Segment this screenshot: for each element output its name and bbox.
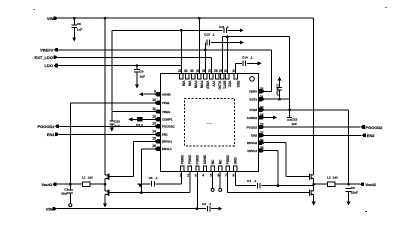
svg-text:20: 20	[260, 105, 264, 109]
svg-text:C2: C2	[202, 202, 206, 206]
svg-text:23: 23	[260, 123, 264, 127]
svg-text:30: 30	[190, 69, 194, 73]
svg-text:C5: C5	[351, 186, 355, 190]
svg-text:AGND2: AGND2	[247, 116, 258, 120]
svg-text:26: 26	[260, 138, 264, 142]
svg-text:C14: C14	[242, 56, 248, 60]
svg-text:11: 11	[152, 107, 156, 111]
svg-text:1uH: 1uH	[333, 176, 338, 180]
svg-text:VIN: VIN	[182, 81, 186, 87]
svg-text:GND: GND	[234, 157, 238, 165]
svg-text:1uF: 1uF	[140, 75, 146, 79]
svg-text:.1: .1	[254, 179, 257, 183]
svg-text:NC: NC	[218, 159, 222, 164]
svg-text:.1: .1	[226, 25, 229, 29]
svg-text:PGND: PGND	[181, 154, 185, 164]
svg-text:COMP1: COMP1	[162, 118, 173, 122]
svg-text:8: 8	[233, 173, 235, 177]
svg-text:PGOOD1: PGOOD1	[162, 125, 175, 129]
svg-text:NC: NC	[211, 159, 215, 164]
svg-text:PGND: PGND	[196, 154, 200, 164]
svg-text:VDRV: VDRV	[249, 90, 257, 94]
svg-text:EN1: EN1	[47, 132, 56, 137]
svg-text:EN2: EN2	[251, 134, 257, 138]
svg-text:26: 26	[214, 69, 218, 73]
svg-text:VIN: VIN	[47, 16, 54, 21]
svg-text:.1: .1	[209, 202, 212, 206]
svg-text:VCC: VCC	[228, 81, 232, 88]
svg-text:C4: C4	[247, 179, 251, 183]
svg-text:14: 14	[152, 130, 156, 134]
svg-text:PGOD2: PGOD2	[247, 125, 258, 129]
svg-text:BST2: BST2	[249, 98, 257, 102]
svg-text:LDO: LDO	[45, 63, 53, 68]
svg-text:C8: C8	[77, 22, 81, 26]
svg-text:1nF: 1nF	[292, 122, 298, 126]
svg-text:10: 10	[152, 98, 156, 102]
svg-text:DRVL2: DRVL2	[247, 149, 257, 153]
svg-text:AGND: AGND	[162, 93, 172, 97]
svg-text:2: 2	[187, 173, 189, 177]
svg-text:VIN: VIN	[46, 206, 53, 211]
svg-text:DRVH2: DRVH2	[247, 141, 257, 145]
svg-text:EN1: EN1	[162, 133, 168, 137]
svg-text:PVIN: PVIN	[200, 81, 204, 89]
svg-text:7: 7	[225, 173, 227, 177]
svg-text:15: 15	[152, 137, 156, 141]
svg-text:Vout2: Vout2	[365, 182, 377, 187]
svg-text:VLDO: VLDO	[218, 81, 222, 90]
svg-text:.1: .1	[155, 176, 158, 180]
svg-text:BST1: BST1	[223, 81, 227, 89]
svg-text:16: 16	[152, 144, 156, 148]
svg-text:EN2: EN2	[367, 133, 376, 138]
svg-text:PGOOD1: PGOOD1	[37, 124, 55, 129]
svg-text:.1: .1	[250, 56, 253, 60]
svg-text:Vout1: Vout1	[41, 182, 53, 187]
svg-text:L2: L2	[327, 176, 331, 180]
svg-text:C9: C9	[140, 70, 144, 74]
svg-text:3: 3	[195, 173, 197, 177]
svg-text:........: ........	[207, 121, 213, 124]
svg-text:22uF: 22uF	[351, 190, 358, 194]
svg-text:V7V: V7V	[212, 81, 216, 88]
svg-text:PGND: PGND	[188, 154, 192, 164]
svg-text:VFB1: VFB1	[162, 101, 170, 105]
svg-text:24: 24	[260, 113, 264, 117]
svg-text:REG: REG	[236, 81, 240, 88]
svg-text:9: 9	[154, 90, 156, 94]
svg-text:VIN: VIN	[188, 81, 192, 87]
svg-text:.1: .1	[212, 33, 215, 37]
svg-text:1uF: 1uF	[77, 28, 83, 32]
svg-text:31: 31	[184, 69, 188, 73]
svg-text:22: 22	[260, 87, 264, 91]
svg-text:PGND: PGND	[226, 154, 230, 164]
svg-text:PVIN: PVIN	[194, 81, 198, 89]
svg-text:VREG: VREG	[162, 110, 171, 114]
svg-text:27: 27	[260, 131, 264, 135]
svg-text:PGOOD2: PGOOD2	[365, 125, 383, 130]
svg-text:VREF3: VREF3	[40, 47, 54, 52]
svg-text:C11: C11	[219, 25, 225, 29]
svg-text:VFB2: VFB2	[249, 108, 257, 112]
svg-text:C16 1uF: C16 1uF	[276, 84, 280, 96]
svg-text:DRVL1: DRVL1	[162, 147, 172, 151]
svg-text:25: 25	[260, 146, 264, 150]
svg-text:L1: L1	[82, 176, 86, 180]
svg-text:DRVH1: DRVH1	[162, 140, 172, 144]
svg-text:C13: C13	[204, 33, 210, 37]
svg-text:13: 13	[152, 122, 156, 126]
svg-text:5: 5	[210, 173, 212, 177]
svg-text:EXT_LDO: EXT_LDO	[35, 55, 53, 60]
svg-text:6: 6	[218, 173, 220, 177]
svg-text:1uH: 1uH	[88, 176, 93, 180]
svg-text:C3: C3	[149, 176, 153, 180]
svg-text:AGND: AGND	[203, 154, 207, 164]
svg-text:4: 4	[202, 173, 204, 177]
svg-text:22uF: 22uF	[61, 192, 68, 196]
svg-text:21: 21	[260, 95, 264, 99]
svg-text:12: 12	[152, 115, 156, 119]
svg-text:VREF: VREF	[206, 81, 210, 90]
